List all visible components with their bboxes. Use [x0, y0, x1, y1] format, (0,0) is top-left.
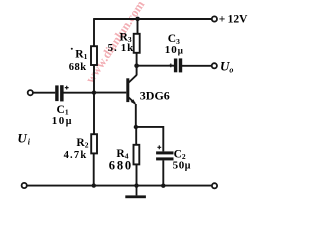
svg-text:10μ: 10μ	[52, 115, 73, 127]
junction emitter node	[134, 125, 138, 129]
junction C2 bottom rail	[161, 184, 165, 188]
wire C3 to output terminal	[182, 65, 212, 67]
resistor R3	[134, 34, 140, 53]
svg-text:3DG6: 3DG6	[140, 88, 170, 102]
wire top rail	[94, 18, 212, 20]
C3 polarity plus	[169, 64, 173, 68]
C1 polarity plus	[65, 86, 69, 90]
resistor R4	[134, 145, 140, 165]
watermark	[83, 0, 148, 86]
terminal bottom right	[212, 183, 217, 188]
wire bottom rail	[27, 185, 212, 187]
junction collector node	[134, 63, 139, 68]
wire emitter vertical	[135, 104, 137, 127]
wire R4 to bottom rail	[136, 165, 138, 186]
capacitor C2	[156, 151, 173, 160]
capacitor C1	[55, 85, 63, 101]
wire base	[94, 92, 126, 94]
svg-text:680: 680	[109, 159, 133, 173]
terminal input	[28, 90, 33, 95]
terminal output	[212, 63, 217, 68]
capacitor C3	[174, 58, 182, 72]
junction top rail / R3	[135, 17, 140, 22]
terminal bottom left	[22, 183, 27, 188]
C2 polarity plus	[157, 145, 161, 149]
svg-text:+ 12V: + 12V	[219, 14, 248, 26]
wire left column mid (R1 to R2 through base node)	[93, 66, 95, 134]
svg-text:4.7k: 4.7k	[64, 150, 88, 161]
transistor Q1 collector lead	[129, 75, 137, 83]
transistor Q1 base bar	[126, 78, 129, 102]
wire collector (R3 to transistor)	[136, 53, 138, 75]
wire input to C1	[33, 92, 55, 94]
wire C1 to base node	[63, 92, 94, 94]
wire emitter node to C2 branch	[136, 127, 164, 151]
junction R2 bottom rail	[92, 183, 96, 187]
transistor Q1 emitter lead with arrow	[129, 98, 137, 106]
junction base node	[92, 90, 96, 94]
wire collector node to C3	[137, 65, 174, 67]
svg-text:10μ: 10μ	[165, 44, 184, 56]
junction R4 bottom rail	[134, 183, 138, 187]
resistor R2	[91, 134, 97, 153]
resistor R1	[91, 46, 97, 65]
wire left column lower (R2 to bottom rail)	[93, 154, 95, 186]
label R1	[71, 48, 88, 61]
svg-text:50μ: 50μ	[173, 159, 191, 171]
svg-text:68k: 68k	[69, 62, 87, 73]
ground	[125, 186, 146, 199]
wire left column upper (rail to R1)	[93, 18, 95, 46]
wire emitter node to R4	[135, 127, 137, 144]
wire R3 top (rail to R3)	[137, 18, 139, 33]
svg-text:5. 1k: 5. 1k	[108, 42, 135, 54]
wire C2 to bottom rail	[162, 160, 164, 185]
terminal +12V	[212, 16, 217, 21]
